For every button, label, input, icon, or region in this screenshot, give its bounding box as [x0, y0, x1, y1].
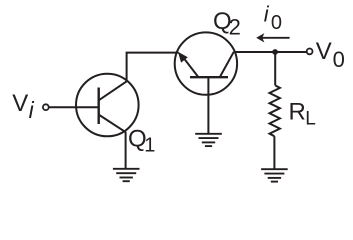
- svg-text:R: R: [289, 98, 306, 125]
- svg-text:0: 0: [333, 47, 345, 72]
- svg-text:i: i: [264, 1, 270, 26]
- svg-text:L: L: [305, 108, 316, 129]
- svg-text:V: V: [316, 38, 332, 65]
- svg-text:1: 1: [144, 135, 155, 157]
- svg-text:i: i: [29, 97, 35, 123]
- svg-text:0: 0: [271, 12, 282, 34]
- svg-text:V: V: [12, 90, 28, 117]
- svg-text:2: 2: [229, 14, 241, 39]
